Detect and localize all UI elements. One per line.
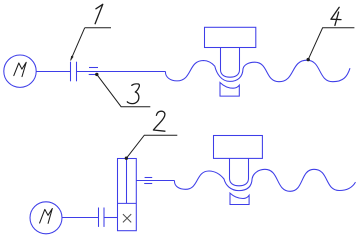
shaft: coupling to gearbox [104, 217, 118, 219]
flexible shaft sheath (bottom wavy line) [175, 169, 356, 191]
gearbox housing [118, 159, 137, 231]
coupling (bottom) bar 2 [103, 208, 105, 227]
node dot of leader 4 [307, 58, 310, 61]
gearbox inner shaft line [126, 159, 128, 204]
tool spindle neck with round bottom (top) [221, 48, 240, 78]
label text 4 [331, 7, 341, 25]
label text 2 [153, 111, 165, 131]
slip joint upper tick (top) [89, 67, 98, 69]
motor letter M (top) [14, 62, 26, 76]
leader line for label 1 [71, 28, 111, 61]
motor M (bottom) [30, 202, 62, 234]
leader line for label 4 [308, 28, 354, 60]
leader line for label 2 [126, 135, 177, 158]
flexible shaft sheath (top wavy line) [166, 60, 351, 81]
coupling (top) bar 2 [76, 62, 78, 82]
tool head body (top) [205, 27, 256, 47]
coupling (top) bar 1 [70, 62, 72, 82]
slip joint upper tick (bottom) [145, 177, 153, 179]
arrow of leader 1 [70, 56, 73, 61]
motor letter M (bottom) [40, 209, 53, 224]
coupling (bottom) bar 1 [98, 208, 100, 227]
tool spindle neck with round bottom (bottom) [230, 158, 249, 185]
label text 1 [95, 4, 103, 23]
node dot of leader 2 [125, 157, 128, 160]
tool head body (bottom) [214, 136, 263, 159]
grinding cup (top) [220, 83, 239, 97]
leader line for label 3 [97, 74, 151, 106]
slip joint lower tick (bottom) [144, 183, 152, 185]
grinding cup (bottom) [230, 193, 249, 204]
shaft: coupling to flexible shaft [77, 71, 166, 73]
gearbox output shaft [136, 180, 174, 182]
label text 3 [127, 84, 139, 104]
slip joint lower tick (top) [89, 74, 98, 76]
gearbox divider [118, 202, 137, 204]
bevel gear cross in gearbox [123, 214, 131, 222]
shaft: top motor to coupling [36, 71, 70, 73]
shaft: bottom motor to coupling [62, 217, 99, 219]
motor M (top) [4, 55, 36, 87]
node dot of leader 3 [95, 73, 98, 76]
